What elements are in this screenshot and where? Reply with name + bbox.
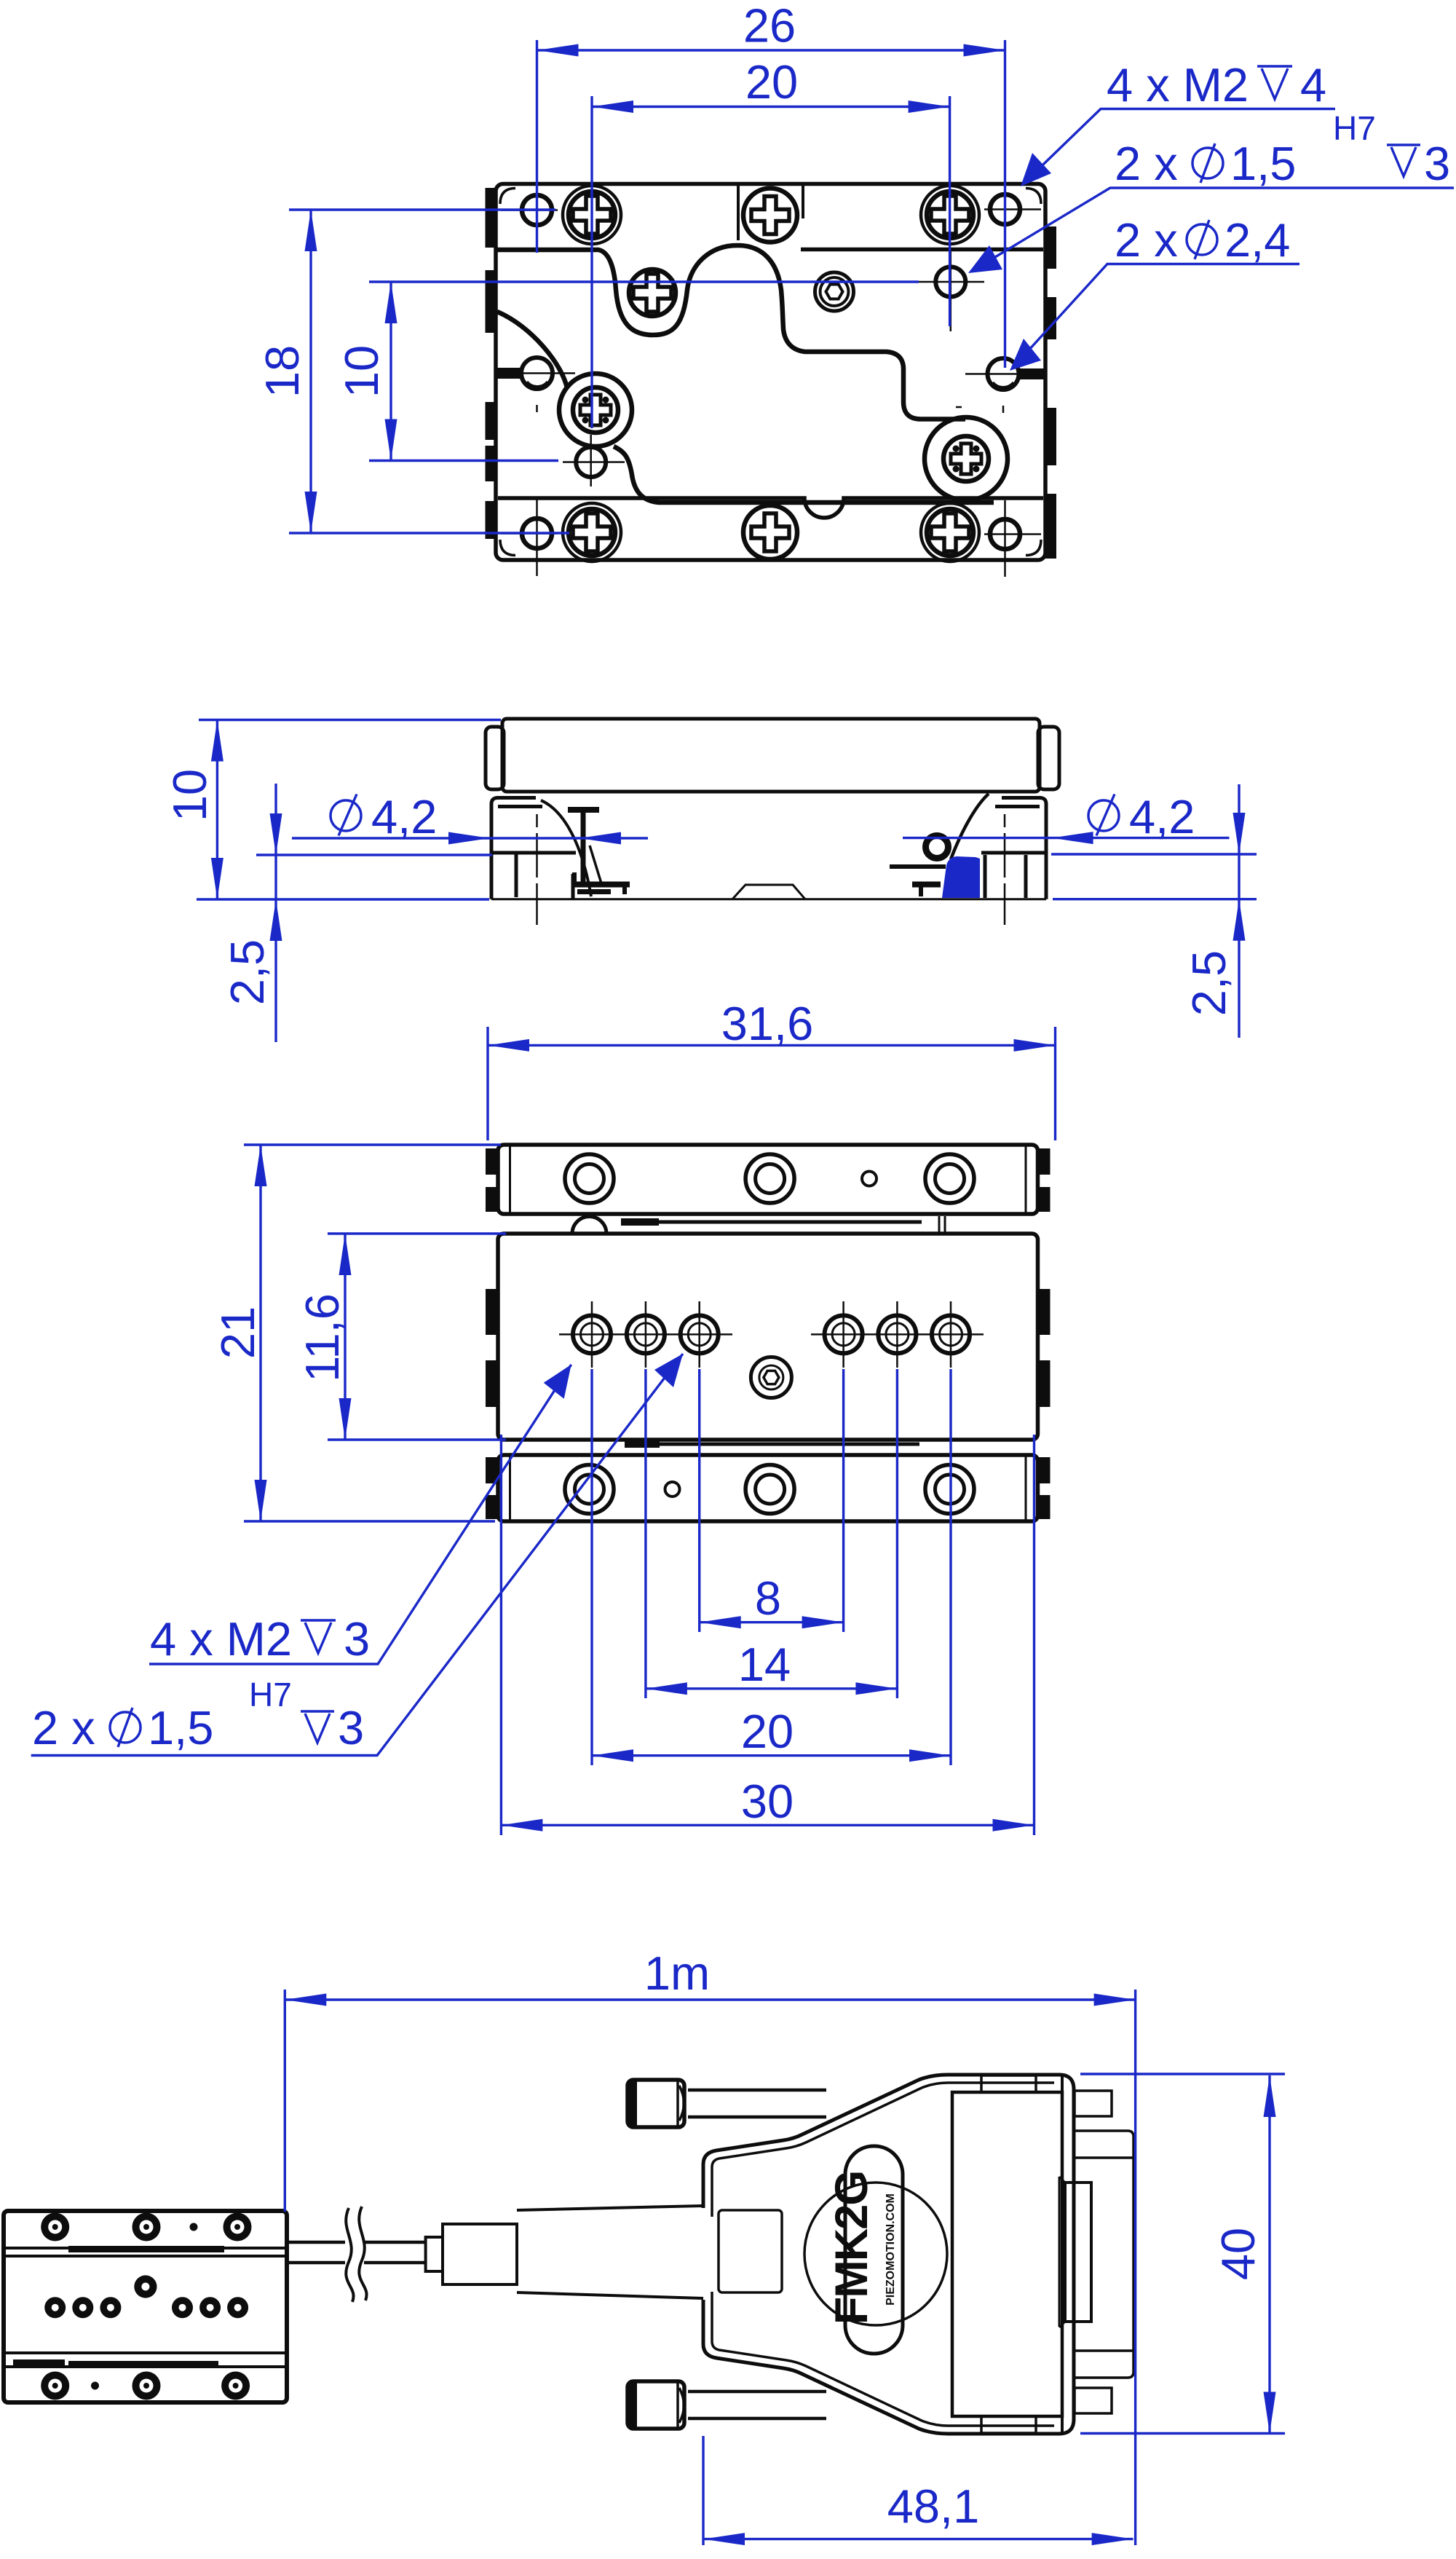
- inner corner fillets: [500, 189, 1041, 556]
- left side rail tabs: [486, 188, 496, 539]
- svg-text:3: 3: [344, 1612, 370, 1665]
- washer ring bottom-left: [565, 1465, 614, 1514]
- dimension 8: [700, 1572, 844, 1628]
- crosshair lines M2/dowel holes: [559, 1301, 984, 1368]
- dimension 40: [1080, 2074, 1285, 2434]
- left foot bottom bracket: [572, 872, 630, 894]
- corner M2 screw hole top-right: [984, 186, 1041, 252]
- pan head screw left (4-dot): [573, 387, 618, 433]
- svg-text:1m: 1m: [644, 1947, 710, 2000]
- label dia 4.2 left: [292, 790, 648, 845]
- right foot centerline: [1004, 814, 1006, 925]
- cable segment 2: [364, 2242, 426, 2263]
- dimension 21: [211, 1145, 501, 1521]
- piezo drive ring: [926, 836, 949, 859]
- left foot centerline: [536, 814, 538, 925]
- center screw pocket lines: [738, 186, 803, 240]
- svg-text:26: 26: [743, 0, 796, 52]
- contour bottom edge: [614, 446, 994, 502]
- dsub insert bar: [1059, 2177, 1091, 2327]
- hood outer outline: [703, 2075, 1074, 2434]
- dimension 10: [335, 282, 919, 461]
- mini stage outline: [4, 2211, 287, 2402]
- table right end cap: [1038, 727, 1059, 789]
- svg-text:20: 20: [745, 55, 798, 109]
- washer ring top-left: [565, 1154, 614, 1203]
- dimension 48.1: [703, 2436, 1133, 2545]
- svg-text:8: 8: [755, 1572, 781, 1625]
- dimension 20 bottom: [592, 1705, 951, 1762]
- washer ring bottom-right: [925, 1465, 974, 1514]
- svg-text:48,1: 48,1: [887, 2480, 980, 2533]
- phillips screw bottom-center: [743, 505, 797, 559]
- svg-text:10: 10: [335, 345, 388, 398]
- dimension 31.6: [488, 997, 1056, 1140]
- label dia 4.2 right: [903, 790, 1230, 844]
- dimension 18: [256, 210, 569, 533]
- M2 hole 1: [573, 1315, 611, 1353]
- washer ring top-right: [925, 1154, 974, 1203]
- boss circle around right pan screw: [925, 417, 1008, 500]
- small hole top: [862, 1172, 877, 1186]
- hood window: [719, 2210, 782, 2292]
- pan head screw right (4-dot): [943, 436, 989, 481]
- phillips screw bottom-right: [921, 503, 979, 561]
- dimension 11.6: [296, 1234, 506, 1440]
- svg-text:1,5: 1,5: [1230, 137, 1296, 190]
- mini rings bottom row: [41, 2372, 250, 2400]
- mini slot bars: [13, 2246, 224, 2365]
- M2 hole 4: [825, 1315, 863, 1353]
- moving table body: [502, 719, 1040, 792]
- left screw T-pin: [568, 810, 601, 883]
- corner M2 screw hole bottom-left: [501, 500, 558, 576]
- small hole bottom: [665, 1482, 680, 1497]
- dimension 26: [537, 0, 1005, 368]
- mini stage slab lines: [4, 2248, 287, 2367]
- hood inner outline: [712, 2083, 1054, 2426]
- label 2 x dia 1.5 H7 depth 3: [968, 109, 1454, 273]
- M2 hole 3: [681, 1315, 719, 1353]
- svg-text:1,5: 1,5: [148, 1701, 213, 1754]
- slot gap2: [625, 1440, 919, 1448]
- mini middle holes: [44, 2275, 248, 2318]
- dimension 2.5 right: [1051, 784, 1257, 1038]
- dimension 1m: [285, 1947, 1135, 2545]
- ferrule large: [443, 2224, 517, 2284]
- dowel hole 2: [627, 1315, 665, 1353]
- svg-text:18: 18: [256, 345, 309, 398]
- top band bottom edge right segment: [801, 248, 1043, 252]
- base bottom edge: [491, 898, 1046, 900]
- washer ring top-center: [745, 1154, 794, 1203]
- phillips screw top-right: [921, 186, 979, 244]
- right foot outline: [981, 798, 1046, 899]
- svg-text:31,6: 31,6: [721, 997, 814, 1050]
- big arc to left edge: [497, 312, 567, 388]
- dimension 14: [646, 1638, 898, 1695]
- svg-text:4 x M2: 4 x M2: [1107, 58, 1249, 111]
- right tabs: [1038, 1148, 1051, 1519]
- phillips screw top-center: [743, 189, 797, 243]
- svg-text:40: 40: [1211, 2228, 1265, 2280]
- svg-text:11,6: 11,6: [296, 1293, 349, 1382]
- label 4 x M2 depth 3: [149, 1365, 571, 1665]
- bottom slab end lines: [510, 1455, 1026, 1521]
- svg-text:FMK2G: FMK2G: [826, 2172, 877, 2325]
- FMK2G badge: [845, 2146, 903, 2354]
- table left end cap: [486, 727, 504, 789]
- label 2 x dia 2.4: [1010, 213, 1299, 371]
- piezo arm line: [890, 864, 946, 869]
- svg-text:2 x: 2 x: [1115, 137, 1178, 190]
- dimension 20: [592, 55, 950, 428]
- label 2 x dia 1.5 H7 depth 3 bottom: [31, 1354, 683, 1756]
- thumbscrew bottom: [628, 2381, 826, 2429]
- bottom slab: [498, 1455, 1038, 1521]
- extension columns: [501, 1369, 1034, 1835]
- dimension 10 side: [163, 720, 501, 900]
- svg-text:H7: H7: [1333, 109, 1376, 147]
- cable segment 1: [287, 2242, 345, 2263]
- washer ring bottom-center: [745, 1465, 794, 1514]
- right foot flexure arc: [951, 794, 989, 859]
- M2 hole 6: [932, 1315, 970, 1353]
- phillips screw mid-left in dip: [629, 269, 676, 316]
- plate outline: [496, 184, 1045, 561]
- dowel hole 1.5 H7 left: [563, 435, 625, 486]
- base center pocket: [732, 885, 805, 899]
- jack screw boss bottom: [1075, 2388, 1112, 2413]
- left foot outline: [491, 798, 576, 899]
- left tabs: [486, 1148, 498, 1519]
- svg-text:21: 21: [211, 1306, 264, 1359]
- svg-text:4: 4: [1300, 58, 1326, 111]
- dowel hole 2.4 left with slot: [496, 358, 575, 412]
- svg-text:2,4: 2,4: [1224, 213, 1290, 267]
- right side rail tabs: [1045, 226, 1056, 559]
- mini rings top row: [41, 2213, 251, 2241]
- corner M2 screw hole top-left: [501, 187, 558, 253]
- center hex screw: [751, 1357, 791, 1398]
- svg-text:30: 30: [741, 1775, 794, 1828]
- svg-text:H7: H7: [249, 1676, 292, 1714]
- dowel hole 2.4 right with slot: [956, 358, 1045, 413]
- thumbscrew top: [628, 2080, 826, 2127]
- svg-text:2,5: 2,5: [1182, 950, 1235, 1016]
- bottom band top edge: [498, 498, 1043, 518]
- piezo element highlighted blue: [942, 856, 980, 898]
- left foot flexure arc: [541, 800, 591, 896]
- grommet circle: [804, 2183, 947, 2325]
- phillips screw top-left: [563, 186, 621, 244]
- jack screw boss top: [1075, 2091, 1112, 2116]
- right foot bottom bracket: [912, 885, 941, 897]
- dsub body: [1075, 2131, 1133, 2378]
- hex socket set screw: [815, 272, 854, 311]
- svg-text:14: 14: [738, 1638, 791, 1691]
- top slab end lines: [510, 1145, 1026, 1214]
- slot gap1: [621, 1216, 945, 1232]
- svg-text:10: 10: [163, 769, 216, 821]
- boss circle around left pan screw: [559, 374, 632, 446]
- corner M2 screw hole bottom-right: [984, 500, 1041, 577]
- dowel hole 1.5 H7 right: [919, 251, 984, 331]
- svg-text:4 x M2: 4 x M2: [150, 1612, 292, 1665]
- top slab: [498, 1145, 1038, 1214]
- label 4 x M2 depth 4: [1021, 58, 1335, 186]
- dowel hole 5: [878, 1315, 916, 1353]
- dimension 30: [501, 1775, 1034, 1831]
- flange edge-on: [952, 2075, 1062, 2433]
- svg-text:4,2: 4,2: [1129, 790, 1195, 843]
- svg-text:4,2: 4,2: [371, 790, 437, 843]
- strain relief cone: [517, 2206, 703, 2298]
- cable break symbol: [346, 2207, 366, 2302]
- svg-text:3: 3: [1424, 137, 1450, 190]
- dimension 2.5 left: [221, 784, 492, 1042]
- phillips screw bottom-left: [563, 503, 621, 561]
- svg-text:PIEZOMOTION.COM: PIEZOMOTION.COM: [885, 2193, 897, 2306]
- middle slab: [498, 1234, 1038, 1440]
- svg-text:20: 20: [741, 1705, 794, 1758]
- svg-text:3: 3: [338, 1701, 364, 1754]
- svg-text:2,5: 2,5: [221, 939, 274, 1005]
- moving table wavy contour: [496, 245, 965, 419]
- svg-text:2 x: 2 x: [1115, 213, 1178, 267]
- washer arc peeking in gap1: [572, 1217, 606, 1234]
- ferrule small: [426, 2237, 443, 2271]
- svg-text:2 x: 2 x: [32, 1701, 95, 1754]
